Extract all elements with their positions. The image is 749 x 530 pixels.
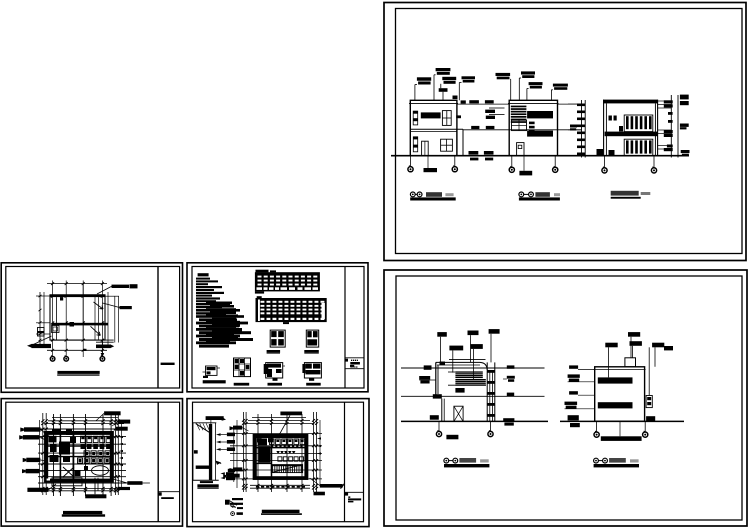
axis bubble 6: [653, 156, 655, 168]
mark above roof: [453, 96, 458, 100]
plan E title: [63, 511, 102, 514]
v4 blob left of door: [430, 415, 439, 420]
section mid slab: [605, 132, 658, 137]
panel E border outer: [1, 399, 182, 526]
upper left fixtures: [609, 116, 612, 121]
section slope hatch: [196, 424, 210, 433]
window sill leaders: [489, 107, 505, 109]
panel D border outer: [187, 263, 368, 392]
plan F small detail: [232, 498, 243, 500]
plan E leaders right: [104, 411, 121, 415]
title view 5: [594, 458, 599, 463]
leader note A3: [442, 77, 456, 80]
level line v4 top: [401, 367, 545, 369]
v4 top leaders: [437, 332, 447, 337]
title view 4: [444, 458, 449, 463]
leader note B4: [553, 84, 568, 87]
slope arrow upper: [94, 302, 104, 309]
plan E grid verticals: [53, 414, 55, 496]
plan E bottom stair: [50, 479, 112, 482]
title view 2: [519, 192, 524, 197]
axis bubble 1: [408, 167, 413, 172]
building 1 base note: [424, 168, 438, 172]
roof right dim lines: [107, 292, 109, 345]
plan E leader bottom-left: [27, 488, 48, 492]
building 1 lower window W4: [441, 139, 453, 151]
building 1 axis line left: [410, 156, 412, 167]
panel D title strip divider: [344, 267, 346, 389]
v4 louver band 1: [455, 371, 482, 372]
fixture row 3: [84, 451, 89, 457]
plan F right leaders: [320, 484, 343, 488]
plan F bottom dim band: [250, 484, 310, 486]
section ground band: [200, 481, 213, 483]
section right wall: [654, 103, 656, 155]
v5 ground block: [646, 416, 655, 421]
v5 left marks: [569, 365, 578, 368]
plan E wall fills: [45, 434, 48, 479]
leader note A2: [436, 68, 451, 71]
plan F stair hatch: [271, 465, 302, 473]
notes dense patch: [206, 302, 232, 305]
right wall level mark: [456, 115, 461, 118]
panel C title strip divider: [157, 267, 159, 389]
title view 1: [410, 192, 415, 197]
leader roof note 2: [103, 303, 120, 308]
section right dim lines: [670, 95, 672, 158]
plan E tick crosses: [41, 419, 44, 422]
panel A border inner: [396, 9, 743, 254]
vertical drop to bottom note: [94, 478, 96, 495]
level text left 7.2: [570, 125, 577, 128]
level line bldg2 to section mid: [558, 129, 582, 131]
building 1 door D1: [422, 141, 429, 156]
schedule table 1: [255, 272, 320, 291]
notes text block: [198, 273, 209, 276]
stall row 1: [81, 436, 86, 442]
plan F title: [262, 510, 300, 513]
v5 top leaders: [605, 343, 617, 348]
roof inner lines: [56, 297, 58, 340]
axis bubble 3: [511, 156, 513, 167]
down arrow leader: [101, 340, 103, 353]
plan F urinal row: [276, 451, 279, 453]
v5 window band 2: [598, 402, 633, 408]
v4 step: [433, 394, 442, 398]
building 2 floor line: [509, 129, 557, 131]
plan F outer walls: [254, 435, 308, 479]
plan F tick crosses: [242, 419, 245, 422]
v5 bottom note: [601, 436, 642, 441]
section dim line: [192, 423, 194, 481]
section roof slab: [603, 100, 658, 104]
ground line v4: [401, 420, 548, 422]
plan E outer walls: [45, 432, 113, 482]
leader note B1: [496, 73, 511, 76]
v4 left leader: [424, 365, 432, 369]
v5 leader into shaft: [648, 347, 650, 395]
bottom edge extension lines: [50, 339, 114, 341]
title view 3: [611, 191, 639, 196]
roof top dim line: [47, 283, 107, 285]
stair window louvers: [511, 106, 527, 108]
plan F left rooms: [258, 439, 267, 446]
v4 base note: [446, 435, 458, 440]
panel E border inner: [6, 402, 180, 522]
roof axis bubbles: [50, 357, 55, 362]
level text 9.0a: [469, 100, 479, 103]
upper stall row: [624, 115, 653, 132]
plan E bottom center note: [85, 494, 106, 498]
level line bldg2 to section roof: [558, 103, 582, 105]
level text 0.0: [469, 151, 479, 155]
building 1 outline: [410, 100, 457, 155]
v5 building outline: [595, 367, 645, 422]
building 1 upper window W2: [442, 111, 451, 126]
detail D2: [234, 358, 251, 377]
ground line: [391, 155, 689, 157]
small square mark: [84, 349, 87, 351]
section right leaders: [216, 433, 221, 436]
v5 axis bubbles: [596, 421, 598, 431]
axis bubble 5: [604, 156, 606, 168]
building 1 lower window W3: [413, 137, 417, 140]
leader note B3: [529, 82, 543, 85]
axis bubble 2: [452, 167, 457, 172]
section arrow mid: [215, 461, 221, 465]
plan F top leader: [280, 412, 302, 416]
building 1 upper window band: [421, 112, 441, 118]
level line v4 mid: [401, 395, 545, 397]
v4 door: [454, 406, 463, 421]
ground line v5: [560, 420, 684, 422]
panel C border inner: [6, 267, 180, 389]
detail D4: [304, 363, 321, 378]
panel E title strip divider: [157, 402, 159, 522]
panel F border outer: [187, 399, 369, 527]
building 1 axis line right: [454, 156, 456, 167]
interior partitions: [72, 432, 74, 482]
panel B border outer: [384, 270, 747, 526]
plan F stall row 3: [278, 457, 282, 461]
schedule table 2: [256, 298, 327, 322]
panel F title strip divider: [344, 402, 346, 522]
small vent column: [529, 122, 535, 125]
lower room shapes: [92, 466, 109, 476]
building 1 upper window W1: [413, 111, 418, 114]
panel A border outer: [384, 3, 746, 261]
building 2 door: [517, 143, 524, 156]
stall row 2: [81, 444, 86, 449]
plan E dim frame: [48, 420, 124, 422]
plan F partitions: [271, 435, 273, 479]
detail S1 window: [270, 330, 285, 347]
left small appendix: [38, 328, 45, 337]
plan F dim frame: [248, 419, 310, 421]
stair window grid: [512, 120, 527, 130]
v4 right tower: [486, 362, 488, 421]
roof bottom dim line: [47, 349, 107, 351]
roof outline: [50, 295, 105, 340]
axis bubble 4: [554, 156, 556, 167]
panel C border outer: [1, 263, 182, 393]
level line 9.0: [457, 103, 509, 105]
v4 roof: [436, 361, 480, 363]
detail D3: [266, 363, 283, 378]
right note bars: [680, 95, 689, 100]
lower left fixture: [609, 150, 615, 156]
plan F left leaders: [230, 426, 233, 430]
leader note A4: [462, 76, 476, 79]
section label: [197, 484, 218, 487]
panel F border inner: [193, 402, 364, 522]
leader note A1: [417, 77, 431, 80]
window band lower: [527, 131, 553, 137]
panel D title block: [345, 359, 348, 362]
v4 left wall: [435, 362, 437, 396]
fixture row 4: [78, 458, 83, 463]
level text under ground: [470, 158, 478, 161]
window band upper: [527, 111, 553, 118]
plan E leaders left: [20, 428, 24, 432]
v4 louver band 2: [455, 379, 485, 380]
panel C strip text: [161, 363, 175, 365]
plan E leaders lower right: [127, 481, 142, 485]
bottom-right thick leader bar: [96, 345, 110, 349]
v5 right shaft: [646, 396, 652, 408]
left rooms dark patches: [49, 436, 57, 443]
level line 3.9: [463, 129, 509, 131]
section bottom leaders: [228, 469, 235, 472]
v4 parapet step: [440, 362, 446, 366]
drain symbol: [70, 322, 75, 327]
v4 right level marks: [507, 365, 515, 368]
bottom-left leader note: [33, 336, 52, 345]
building 2 outline: [509, 100, 557, 155]
plan F right arrows: [317, 437, 321, 439]
roof plan title: [57, 371, 99, 374]
section detail top label: [206, 416, 224, 420]
roof tick right: [461, 100, 466, 103]
detail S2 door: [306, 330, 318, 347]
panel F title block: [345, 493, 348, 496]
v5 window band 1: [598, 377, 633, 383]
panel D border inner: [192, 267, 364, 389]
section left wall: [603, 100, 605, 156]
roof left dim column: [39, 292, 41, 345]
wall section detail: [209, 424, 212, 480]
v4 dark block: [455, 388, 464, 393]
leader note B2: [521, 71, 535, 74]
level text 3.9: [471, 126, 479, 129]
building 2 base note: [519, 171, 532, 176]
plan F tick row: [271, 445, 273, 447]
panel E title block: [158, 492, 161, 495]
plan F grid horizontals: [230, 433, 322, 435]
leader roof note 1: [97, 286, 112, 294]
v4 axis bubbles: [438, 421, 440, 431]
v5 parapet notch: [625, 358, 636, 367]
roof grid intersection ticks: [51, 295, 54, 298]
plan E grid horizontals: [38, 428, 126, 430]
panel B border inner: [396, 276, 742, 520]
plan F stall row 1: [270, 439, 275, 445]
roof plan grid lines: [52, 281, 54, 358]
detail D1: [206, 366, 218, 375]
section left dim lines: [581, 100, 583, 158]
section floor slab: [196, 466, 210, 469]
plan F grid verticals: [257, 414, 259, 492]
roof mid ridge band: [52, 323, 109, 326]
plan E right arrows: [119, 436, 123, 438]
lower stall row: [624, 139, 653, 156]
slope arrow lower: [91, 326, 101, 335]
small box lower-left of roof: [52, 326, 60, 333]
